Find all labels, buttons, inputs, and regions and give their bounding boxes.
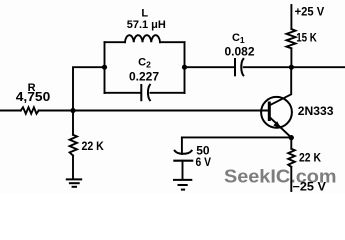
tank bottom left wire (105, 92, 141, 94)
transistor base bar (268, 103, 271, 120)
emitter arrowhead (273, 121, 281, 129)
wire emitter node left (182, 136, 291, 138)
svg-text:15 K: 15 K (296, 32, 317, 44)
inductor L 57.1uH (125, 35, 160, 42)
svg-text:−25 V: −25 V (293, 182, 327, 194)
wire tank to C1 (185, 66, 235, 68)
junction tank right (182, 65, 187, 70)
svg-text:L: L (141, 8, 148, 20)
svg-text:C2: C2 (138, 57, 151, 70)
resistor 22K left (70, 135, 77, 156)
junction node B (289, 65, 294, 70)
wire 22K to ground (72, 156, 74, 179)
svg-text:6 V: 6 V (196, 155, 212, 169)
svg-text:22 K: 22 K (299, 153, 322, 165)
tank left edge (104, 42, 106, 93)
wire node B right (291, 66, 345, 68)
junction emitter node (289, 135, 294, 140)
svg-text:4,750: 4,750 (16, 90, 51, 104)
wire input left (0, 110, 21, 112)
wire cap to ground (182, 161, 184, 180)
wire emitter node down (290, 138, 292, 149)
tank bottom right wire (150, 92, 184, 94)
svg-text:0.082: 0.082 (224, 45, 254, 59)
capacitor C2 left plate (140, 85, 142, 100)
junction tank left (102, 65, 107, 70)
ground left (66, 178, 82, 180)
capacitor C1 left plate (234, 59, 236, 75)
wire 22K to -25V (290, 167, 292, 191)
resistor 22K right (288, 149, 295, 167)
tank top edge right (160, 41, 185, 43)
svg-text:+25 V: +25 V (295, 5, 325, 19)
svg-text:57.1 μH: 57.1 μH (127, 19, 166, 31)
wire node A up (73, 67, 105, 110)
wire base line (39, 110, 269, 112)
svg-text:0.227: 0.227 (129, 69, 159, 83)
tank top edge left (105, 41, 126, 43)
wire emitter (269, 117, 291, 138)
capacitor 50/6V straight plate (174, 160, 192, 162)
capacitor 50/6V curved top plate (175, 151, 192, 154)
wire collector (269, 67, 291, 105)
wire down to capacitor 50/6V (181, 137, 183, 154)
resistor 22K left lead (72, 111, 74, 135)
svg-text:2N333: 2N333 (298, 104, 334, 118)
ground under capacitor (173, 179, 192, 181)
wire 15K to node B (290, 48, 292, 67)
tank right edge (184, 42, 186, 93)
capacitor C2 curved plate (148, 85, 150, 100)
resistor R 4,750 (21, 107, 39, 113)
resistor 15K (287, 29, 296, 48)
wire +25V supply top (290, 5, 292, 29)
svg-text:22 K: 22 K (82, 141, 105, 153)
junction node A (70, 108, 75, 113)
svg-text:C1: C1 (232, 32, 245, 45)
wire C1 to node B (244, 66, 292, 68)
transistor Q1 2N333 circle (261, 97, 292, 128)
capacitor C1 curved plate (241, 59, 243, 75)
